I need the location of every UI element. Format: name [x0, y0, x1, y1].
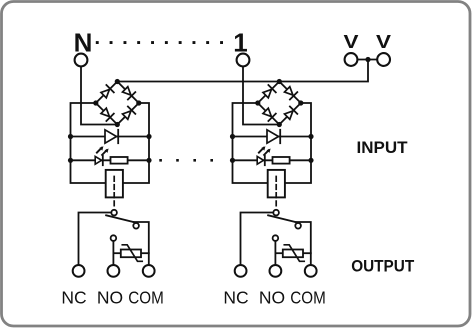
svg-text:NC: NC [223, 288, 248, 308]
bridge BR2 diode bottom-left [263, 108, 271, 116]
switch blade (ch2) [268, 215, 295, 222]
switch blade (ch1) [106, 215, 133, 222]
LED and resistor row wire (ch1) [71, 159, 150, 161]
terminal NC (ch1) [73, 265, 85, 277]
terminal V right circle [377, 53, 390, 66]
svg-text:COM: COM [290, 288, 326, 308]
bridge BR1 left node [93, 100, 98, 105]
LED row left junction (ch2) [230, 158, 235, 163]
terminal N circle [75, 54, 88, 67]
right rail wire (ch1) [123, 103, 149, 183]
NC contact wire to NC terminal (ch2) [241, 213, 274, 266]
diode D1 [105, 130, 117, 143]
V junction node [365, 57, 370, 62]
LED1 [95, 156, 101, 164]
bridge BR2 diode top-left [263, 89, 271, 97]
bridge BR2 left node [255, 100, 260, 105]
bridge BR1 diode top-left [101, 89, 109, 97]
dotted separator between channels [159, 159, 162, 162]
bridge BR1 bottom node [115, 122, 120, 127]
wire between V terminals [358, 59, 378, 61]
dotted row between N and 1 [96, 41, 99, 44]
svg-text:V: V [376, 32, 391, 52]
mechanical link dashed line (ch1) [113, 177, 115, 210]
diode row left junction (ch2) [230, 134, 235, 139]
svg-text:NC: NC [61, 288, 86, 308]
LED row left junction (ch1) [68, 158, 73, 163]
bridge BR2 right node [298, 100, 303, 105]
varistor RV1 leads [113, 252, 120, 254]
diode row right junction (ch1) [146, 134, 151, 139]
mechanical link dashed line (ch2) [275, 177, 277, 210]
varistor RV2 body [283, 250, 303, 258]
terminal V left circle [345, 53, 358, 66]
V supply rail wire [117, 60, 368, 82]
terminal NC (ch2) [235, 265, 247, 277]
LED1 arrows [97, 146, 109, 155]
resistor R1 [111, 157, 128, 164]
bridge BR1 diode top-right [123, 87, 131, 95]
resistor R2 [273, 157, 290, 164]
COM wire from blade to COM terminal (ch1) [134, 222, 149, 265]
bridge BR1 right node [136, 100, 141, 105]
COM wire from blade to COM terminal (ch2) [296, 222, 311, 265]
bridge rectifier BR2 diamond wires [258, 82, 301, 125]
terminal NO (ch2) [270, 265, 282, 277]
NC contact circle (ch1) [111, 210, 117, 216]
bridge BR1 diode bottom-right [123, 111, 131, 119]
svg-text:COM: COM [128, 288, 164, 308]
left rail wire (ch1) [71, 103, 106, 183]
blade pivot circle (ch1) [133, 223, 139, 229]
relay coil K2 [268, 170, 285, 198]
varistor RV2 leads [275, 252, 282, 254]
wire from input terminal to bridge bottom vertex (ch1) [81, 67, 117, 125]
terminal COM (ch1) [143, 265, 155, 277]
NO contact circle (ch2) [273, 235, 279, 241]
bridge BR2 bottom node [277, 122, 282, 127]
terminal COM (ch2) [305, 265, 317, 277]
NC contact circle (ch2) [273, 210, 279, 216]
svg-text:OUTPUT: OUTPUT [351, 257, 415, 276]
LED2 [257, 156, 263, 164]
terminal 1 circle [237, 54, 250, 67]
terminal NO (ch1) [108, 265, 120, 277]
diode row left junction (ch1) [68, 134, 73, 139]
diode row wire (ch1) [71, 136, 150, 138]
NO contact circle (ch1) [111, 235, 117, 241]
LED row right junction (ch2) [308, 158, 313, 163]
svg-text:NO: NO [97, 288, 123, 308]
bridge BR2 top node [277, 79, 282, 84]
relay coil K1 [106, 170, 123, 198]
diode D2 [267, 130, 279, 143]
LED and resistor row wire (ch2) [233, 159, 312, 161]
LED2 arrows [259, 146, 271, 155]
right rail wire (ch2) [285, 103, 311, 183]
left rail wire (ch2) [233, 103, 268, 183]
bridge BR1 diode bottom-left [101, 108, 109, 116]
bridge BR2 diode top-right [285, 87, 293, 95]
svg-text:NO: NO [259, 288, 285, 308]
varistor RV1 body [121, 250, 141, 258]
bridge BR2 diode bottom-right [285, 111, 293, 119]
NC contact wire to NC terminal (ch1) [79, 213, 112, 266]
varistor RV2 diagonal stroke [284, 245, 304, 261]
blade pivot circle (ch2) [295, 223, 301, 229]
NO contact wire to NO terminal (ch2) [274, 241, 276, 265]
bridge BR1 top node [115, 79, 120, 84]
diode row right junction (ch2) [308, 134, 313, 139]
bridge rectifier BR1 diamond wires [96, 82, 139, 125]
varistor RV1 diagonal stroke [122, 245, 142, 261]
wire from input terminal to bridge bottom vertex (ch2) [243, 67, 279, 125]
NO contact wire to NO terminal (ch1) [112, 241, 114, 265]
svg-text:V: V [344, 32, 359, 52]
svg-text:INPUT: INPUT [357, 138, 409, 157]
diode row wire (ch2) [233, 136, 312, 138]
LED row right junction (ch1) [146, 158, 151, 163]
